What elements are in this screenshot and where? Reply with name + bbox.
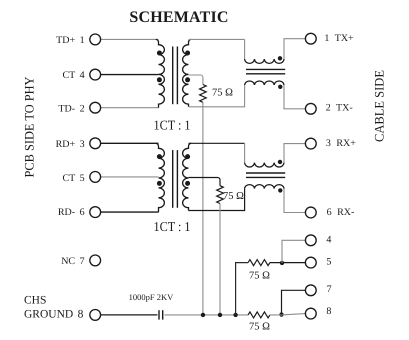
transformer T1 secondary dot lower xyxy=(185,77,190,82)
junction dot bus R2 xyxy=(218,313,222,317)
svg-text:CT 4: CT 4 xyxy=(62,70,84,81)
junction dot R3 output xyxy=(280,261,284,265)
pin circle CT 4 xyxy=(90,69,101,80)
junction dot bus R1 xyxy=(201,313,205,317)
wire CMC L1 bottom-right to pin 2 xyxy=(284,85,306,109)
svg-text:4: 4 xyxy=(326,234,331,245)
choke L1 bottom winding dot xyxy=(278,85,282,89)
svg-text:6 RX-: 6 RX- xyxy=(327,207,355,218)
wire CT 5 (pin 5 left to T2 primary center tap) xyxy=(101,176,159,178)
pin circle NC 7 xyxy=(90,255,101,266)
wire T1 secondary bottom to CMC L1 bottom xyxy=(189,85,245,107)
transformer T1 secondary dot upper xyxy=(185,51,190,56)
capacitor C1 1000pF 2KV xyxy=(159,310,163,319)
choke L1 bottom winding xyxy=(245,81,284,85)
wire RD- (pin 6 left to T2 primary bottom) xyxy=(101,211,159,213)
choke L1 top winding dot xyxy=(278,56,282,60)
choke L2 core xyxy=(246,173,285,177)
wire CMC L2 top-left lead xyxy=(244,143,246,162)
svg-text:TD- 2: TD- 2 xyxy=(58,103,84,114)
svg-text:1 TX+: 1 TX+ xyxy=(324,33,354,44)
resistor R3 75 ohm with leads xyxy=(236,260,270,315)
svg-text:2 TX-: 2 TX- xyxy=(326,102,353,113)
svg-text:RD- 6: RD- 6 xyxy=(58,207,85,218)
transformer T2 core xyxy=(173,150,178,208)
choke L2 top winding xyxy=(245,163,284,167)
pin circle RD+ 3 xyxy=(90,138,101,149)
pin circle CT 5 xyxy=(90,172,101,183)
pin circle 7 xyxy=(305,285,316,296)
pin circle TD+ 1 xyxy=(90,34,101,45)
wire R4 junction to pin 7 xyxy=(282,290,306,314)
pin circle 5 xyxy=(305,257,316,268)
wire R1 to ground bus xyxy=(202,102,204,315)
svg-text:5: 5 xyxy=(326,257,331,268)
svg-text:1000pF 2KV: 1000pF 2KV xyxy=(129,292,174,302)
wire TD+ (pin 1 left to T1 primary top) xyxy=(101,38,159,40)
pin circle 4 xyxy=(305,235,316,246)
choke L2 bottom winding xyxy=(245,185,284,189)
transformer T1 secondary winding xyxy=(183,39,192,106)
wire RD+ T2 secondary top to CMC L2 xyxy=(189,142,245,144)
pin circle 8 xyxy=(305,308,316,319)
transformer T2 secondary dot lower xyxy=(185,181,190,186)
pin circle 1 TX+ xyxy=(305,33,316,44)
pin circle 3 RX+ xyxy=(305,138,316,149)
svg-text:1CT : 1: 1CT : 1 xyxy=(154,118,191,133)
wire CMC L1 top-left lead xyxy=(244,39,246,59)
svg-text:7: 7 xyxy=(327,284,332,295)
wire ground bus xyxy=(164,314,248,316)
pin circle 2 TX- xyxy=(305,103,316,114)
pin circle 6 RX- xyxy=(305,207,316,218)
wire R2 to ground bus xyxy=(219,204,221,315)
svg-text:NC 7: NC 7 xyxy=(61,256,84,267)
wire CMC L1 top-right to pin 1 xyxy=(284,39,306,59)
resistor R2 75 ohm (RX center tap) xyxy=(189,178,224,204)
wire T2 secondary bottom to CMC L2 bottom xyxy=(189,189,245,211)
transformer T2 secondary dot upper xyxy=(185,154,190,159)
resistor R1 75 ohm (TX center tap) xyxy=(189,75,207,102)
wire R3 to pin 5 xyxy=(270,262,306,264)
svg-text:GROUND 8: GROUND 8 xyxy=(24,308,84,320)
wire RD+ (pin 3 left to T2 primary top) xyxy=(101,142,159,144)
pin circle TD- 2 xyxy=(90,102,101,113)
svg-text:CHS: CHS xyxy=(24,295,46,307)
wire R3 junction to pin 4 xyxy=(282,240,306,263)
pin circle RD- 6 xyxy=(90,207,101,218)
wire CMC L2 bottom-right to pin 6 xyxy=(284,189,306,213)
svg-text:PCB SIDE TO PHY: PCB SIDE TO PHY xyxy=(22,76,37,178)
transformer T2 primary winding xyxy=(156,143,165,212)
svg-text:75 Ω: 75 Ω xyxy=(223,191,244,202)
transformer T2 primary dot upper xyxy=(157,154,162,159)
wire R4 to pin 8 xyxy=(270,314,306,315)
choke L1 top winding xyxy=(245,59,284,63)
capacitor C1 wire from pin 8 xyxy=(101,314,158,316)
choke L2 bottom winding dot xyxy=(278,188,282,192)
transformer T1 primary dot lower xyxy=(157,77,162,82)
svg-text:75 Ω: 75 Ω xyxy=(249,322,270,333)
wire CMC L2 top-right to pin 3 xyxy=(284,144,306,163)
wire CT 4 (pin 4 left to T1 primary center tap) xyxy=(101,74,159,76)
svg-text:CABLE SIDE: CABLE SIDE xyxy=(372,70,387,142)
svg-text:8: 8 xyxy=(326,306,331,317)
transformer T1 primary dot upper xyxy=(157,51,162,56)
label CHS GROUND 8 xyxy=(24,295,84,321)
transformer T2 secondary winding xyxy=(183,143,192,210)
wire T1 secondary top to CMC L1 xyxy=(189,38,245,40)
svg-text:CT 5: CT 5 xyxy=(62,173,84,184)
transformer T1 core xyxy=(173,47,178,105)
svg-text:1CT : 1: 1CT : 1 xyxy=(154,219,191,234)
choke L2 top winding dot xyxy=(278,160,282,164)
wire TD- (pin 2 left to T1 primary bottom) xyxy=(101,107,159,109)
choke L1 core xyxy=(246,69,285,73)
junction dot R4 output xyxy=(279,312,283,316)
svg-text:75 Ω: 75 Ω xyxy=(212,88,233,99)
transformer T2 primary dot lower xyxy=(157,181,162,186)
svg-text:RD+ 3: RD+ 3 xyxy=(56,139,85,150)
svg-text:75 Ω: 75 Ω xyxy=(249,270,270,281)
svg-text:3 RX+: 3 RX+ xyxy=(326,138,356,149)
svg-text:SCHEMATIC: SCHEMATIC xyxy=(129,9,228,26)
svg-text:TD+ 1: TD+ 1 xyxy=(56,35,84,46)
junction dot bus R3 xyxy=(233,313,237,317)
resistor R4 75 ohm on bus xyxy=(248,312,270,318)
pin circle CHS GROUND 8 xyxy=(90,310,101,321)
transformer T1 primary winding xyxy=(156,39,165,107)
